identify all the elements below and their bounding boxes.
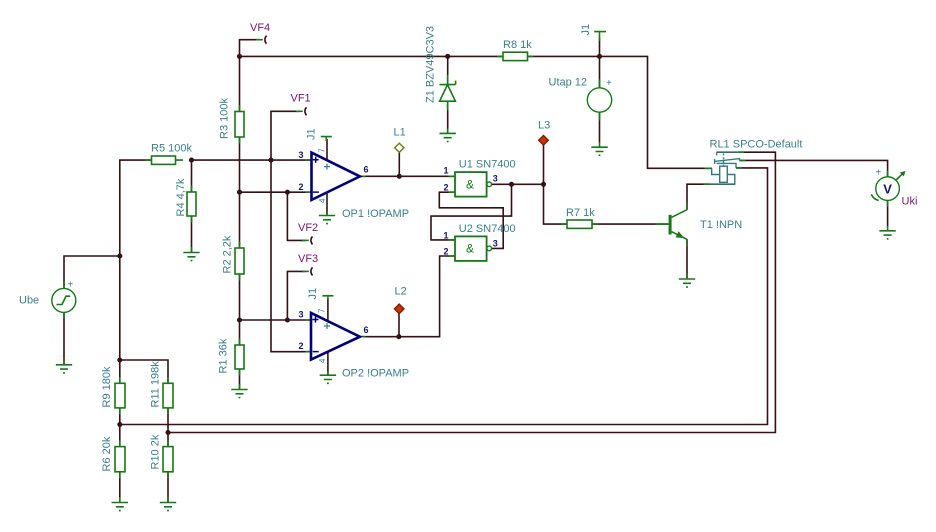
ground under OP2 bbox=[320, 372, 336, 384]
svg-text:OP2 !OPAMP: OP2 !OPAMP bbox=[342, 368, 409, 380]
wire L1 probe stub bbox=[398, 152, 400, 177]
svg-text:2: 2 bbox=[444, 247, 449, 257]
node L1 logic probe bbox=[394, 127, 406, 153]
wire feedback lower: relay contact to R9/R6 node bbox=[120, 168, 768, 425]
probe VF3 bbox=[298, 253, 318, 275]
ground under R6 bbox=[112, 497, 128, 511]
wire OP2 pin3 row bbox=[240, 319, 312, 321]
svg-text:J1: J1 bbox=[306, 128, 318, 140]
wire Ube branch bbox=[64, 256, 120, 365]
svg-text:3: 3 bbox=[493, 173, 498, 183]
node L2 logic probe bbox=[394, 286, 406, 314]
wire L2 probe stub bbox=[398, 313, 400, 336]
svg-text:L3: L3 bbox=[538, 120, 550, 132]
svg-text:L1: L1 bbox=[394, 127, 406, 139]
svg-text:1: 1 bbox=[444, 230, 449, 240]
resistor R6 20k bbox=[101, 436, 125, 478]
wire OP1 power stem bbox=[326, 139, 328, 161]
svg-text:&: & bbox=[466, 242, 474, 256]
wire VF4 stub bbox=[240, 40, 260, 57]
ground under Z1 bbox=[440, 129, 456, 142]
svg-text:2: 2 bbox=[444, 183, 449, 193]
wire L3 down through R7 to T1 base bbox=[544, 145, 669, 224]
wire VF1 probe riser bbox=[271, 111, 299, 160]
svg-text:V: V bbox=[883, 181, 892, 196]
probe VF2 bbox=[298, 222, 318, 244]
svg-text:U2 SN7400: U2 SN7400 bbox=[459, 223, 516, 235]
resistor R3 100k bbox=[219, 98, 245, 144]
wire T1 emitter to ground bbox=[686, 239, 688, 279]
NAND U1 SN7400 bbox=[444, 159, 516, 197]
resistor R8 1k bbox=[497, 39, 534, 61]
svg-text:VF1: VF1 bbox=[291, 93, 311, 105]
svg-text:VF3: VF3 bbox=[298, 253, 318, 265]
svg-text:7: 7 bbox=[318, 148, 327, 153]
ground under R1 bbox=[231, 384, 247, 398]
svg-text:R1 36k: R1 36k bbox=[218, 338, 230, 373]
source Ube bbox=[19, 280, 76, 319]
probe VF4 bbox=[250, 22, 270, 44]
wire Utap source leads bbox=[599, 56, 601, 142]
transistor T1 !NPN bbox=[656, 204, 743, 247]
svg-text:Ube: Ube bbox=[19, 295, 39, 307]
ground under R4 bbox=[183, 247, 199, 261]
svg-text:+: + bbox=[876, 168, 882, 179]
svg-text:R5 100k: R5 100k bbox=[151, 143, 192, 155]
wire VF1 node down to OP2 pin2 bbox=[271, 160, 312, 352]
resistor R1 36k bbox=[218, 338, 245, 375]
svg-text:&: & bbox=[466, 178, 474, 192]
ground under T1 bbox=[679, 274, 695, 287]
svg-text:OP1 !OPAMP: OP1 !OPAMP bbox=[342, 208, 409, 220]
wire OP1 output to U1 pin1 bbox=[360, 175, 455, 177]
jumper J1 (top, at Utap) bbox=[580, 24, 606, 41]
wire OP2 power stem bbox=[327, 299, 329, 321]
svg-text:3: 3 bbox=[299, 310, 304, 320]
svg-text:R10 2k: R10 2k bbox=[150, 434, 162, 469]
relay RL1 SPCO-Default bbox=[704, 139, 803, 185]
wire U1 out to U2 pin1 cross-couple bbox=[431, 184, 512, 240]
wire VF2 probe drop bbox=[287, 192, 305, 240]
probe VF1 bbox=[291, 93, 311, 116]
zener Z1 BZV49C3V3 bbox=[425, 26, 456, 111]
svg-text:6: 6 bbox=[364, 325, 369, 335]
op-amp OP2 !OPAMP bbox=[299, 308, 410, 380]
svg-text:J1: J1 bbox=[307, 288, 319, 300]
wire top supply rail from R3 node through R8 to relay coil bbox=[240, 56, 713, 168]
ground under OP1 bbox=[319, 212, 335, 224]
svg-text:J1: J1 bbox=[580, 24, 592, 36]
op-amp OP1 !OPAMP bbox=[299, 148, 410, 220]
svg-text:Utap 12: Utap 12 bbox=[549, 77, 588, 89]
resistor R4 4,7k bbox=[175, 178, 196, 222]
svg-text:R9 180k: R9 180k bbox=[101, 366, 113, 407]
wire U1 output row to L3 bbox=[492, 183, 544, 185]
svg-text:RL1 SPCO-Default: RL1 SPCO-Default bbox=[710, 139, 803, 151]
svg-text:2: 2 bbox=[299, 182, 304, 192]
svg-text:4: 4 bbox=[318, 358, 327, 363]
ground under Ube bbox=[56, 359, 72, 373]
svg-text:VF2: VF2 bbox=[298, 222, 318, 234]
resistor R7 1k bbox=[561, 207, 598, 228]
wire OP1 pin2 row bbox=[240, 191, 312, 193]
wire U2 out to U1 pin2 cross-couple bbox=[439, 192, 503, 248]
source Utap 12 bbox=[549, 77, 613, 121]
wire R9 node to R11 bbox=[120, 360, 168, 433]
voltmeter Uki bbox=[871, 168, 917, 208]
svg-text:2: 2 bbox=[299, 341, 304, 351]
svg-text:R3 100k: R3 100k bbox=[219, 98, 231, 139]
ground under R10 bbox=[160, 497, 176, 511]
svg-text:Uki: Uki bbox=[902, 196, 918, 208]
svg-text:T1 !NPN: T1 !NPN bbox=[700, 219, 742, 231]
NAND U2 SN7400 bbox=[444, 223, 516, 261]
wire relay common to voltmeter bbox=[739, 160, 887, 226]
wire R5 left to Ube/R9 left chain bbox=[120, 160, 152, 502]
jumper J1 (at OP2) bbox=[307, 288, 333, 300]
wire R4 branch bbox=[191, 160, 193, 252]
wire R10 branch bbox=[167, 433, 169, 503]
jumper J1 (at OP1) bbox=[306, 128, 332, 141]
wire feedback outer: relay NC contact to R11/R10 node bbox=[168, 152, 775, 432]
wire OP2 out row up to U2 pin2 bbox=[360, 256, 455, 337]
svg-text:R6 20k: R6 20k bbox=[101, 436, 113, 471]
resistor R11 198k bbox=[150, 361, 174, 414]
wire R3-R2-R1 vertical chain bbox=[239, 56, 241, 389]
svg-text:+: + bbox=[68, 280, 74, 291]
wire J1 utap stem bbox=[599, 38, 601, 56]
svg-text:L2: L2 bbox=[395, 286, 407, 298]
svg-text:+: + bbox=[606, 78, 612, 89]
svg-text:VF4: VF4 bbox=[250, 22, 270, 34]
wire OP1 ground stem bbox=[326, 192, 328, 216]
wire OP1 pin3 row bbox=[192, 159, 312, 161]
wire T1 collector riser to relay coil bbox=[687, 184, 735, 210]
wire OP2 ground stem bbox=[327, 352, 329, 376]
node L3 logic probe bbox=[538, 120, 550, 146]
resistor R10 2k bbox=[150, 434, 174, 478]
ground under voltmeter bbox=[879, 226, 895, 239]
svg-text:1: 1 bbox=[444, 165, 449, 175]
svg-text:7: 7 bbox=[318, 308, 327, 313]
svg-text:Z1 BZV49C3V3: Z1 BZV49C3V3 bbox=[425, 26, 437, 103]
resistor R2 2,2k bbox=[222, 235, 245, 280]
svg-text:6: 6 bbox=[364, 165, 369, 175]
svg-text:4: 4 bbox=[318, 198, 327, 203]
resistor R5 100k bbox=[145, 143, 192, 165]
ground under Utap bbox=[591, 142, 607, 155]
svg-text:R7 1k: R7 1k bbox=[566, 207, 595, 219]
resistor R9 180k bbox=[101, 366, 125, 414]
svg-text:R11 198k: R11 198k bbox=[150, 361, 162, 408]
svg-text:R8 1k: R8 1k bbox=[503, 39, 532, 51]
wire Z1 branch bbox=[447, 56, 449, 133]
wire VF3 probe drop bbox=[287, 271, 305, 320]
svg-text:R2 2,2k: R2 2,2k bbox=[222, 235, 234, 273]
svg-text:R4 4,7k: R4 4,7k bbox=[175, 178, 187, 216]
svg-text:3: 3 bbox=[493, 238, 498, 248]
svg-text:3: 3 bbox=[299, 150, 304, 160]
svg-text:U1 SN7400: U1 SN7400 bbox=[459, 159, 516, 171]
